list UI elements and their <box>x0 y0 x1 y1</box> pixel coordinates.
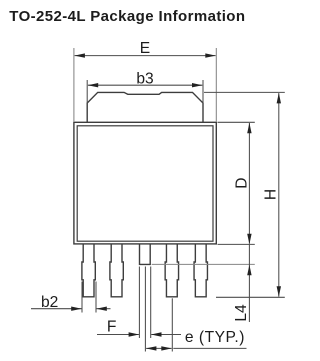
dim L4 line <box>248 244 250 322</box>
dim E extension lines <box>73 48 75 121</box>
dim e line <box>146 347 172 349</box>
svg-text:E: E <box>140 40 150 57</box>
dim b2 line left tail <box>31 308 82 310</box>
svg-text:TO-252-4L Package Information: TO-252-4L Package Information <box>9 8 245 25</box>
lead 4 <box>194 244 207 297</box>
center lead tip extension line <box>152 263 255 265</box>
lead3 centerline extension <box>171 298 173 351</box>
lead 2 <box>110 244 123 297</box>
dim E line <box>75 55 216 57</box>
svg-text:e (TYP.): e (TYP.) <box>185 329 245 346</box>
dim F line right tail <box>151 334 181 336</box>
dim D line <box>248 123 250 244</box>
dim b2 extension lines <box>81 282 83 313</box>
package body inner <box>77 126 213 241</box>
svg-text:b2: b2 <box>41 294 58 311</box>
dim e tail under label <box>173 347 246 349</box>
package tab <box>87 92 203 122</box>
lead 1 <box>82 244 95 297</box>
center lead centerline extension <box>144 267 146 352</box>
dim F line left tail <box>97 334 139 336</box>
svg-text:b3: b3 <box>136 70 153 87</box>
svg-text:H: H <box>263 189 280 200</box>
svg-text:D: D <box>233 177 250 188</box>
center lead <box>140 244 151 265</box>
dim b3 extension lines <box>86 80 88 103</box>
dim H line <box>278 93 280 297</box>
dim b3 line <box>88 84 202 86</box>
dim F extension lines <box>138 267 140 339</box>
lead 3 <box>165 244 178 297</box>
dim b2 line right tail <box>97 308 111 310</box>
dim H extension lines <box>204 91 285 93</box>
svg-text:L4: L4 <box>233 304 250 322</box>
dim D extension lines <box>218 121 255 123</box>
package body outer <box>74 122 216 244</box>
svg-text:F: F <box>107 319 117 336</box>
